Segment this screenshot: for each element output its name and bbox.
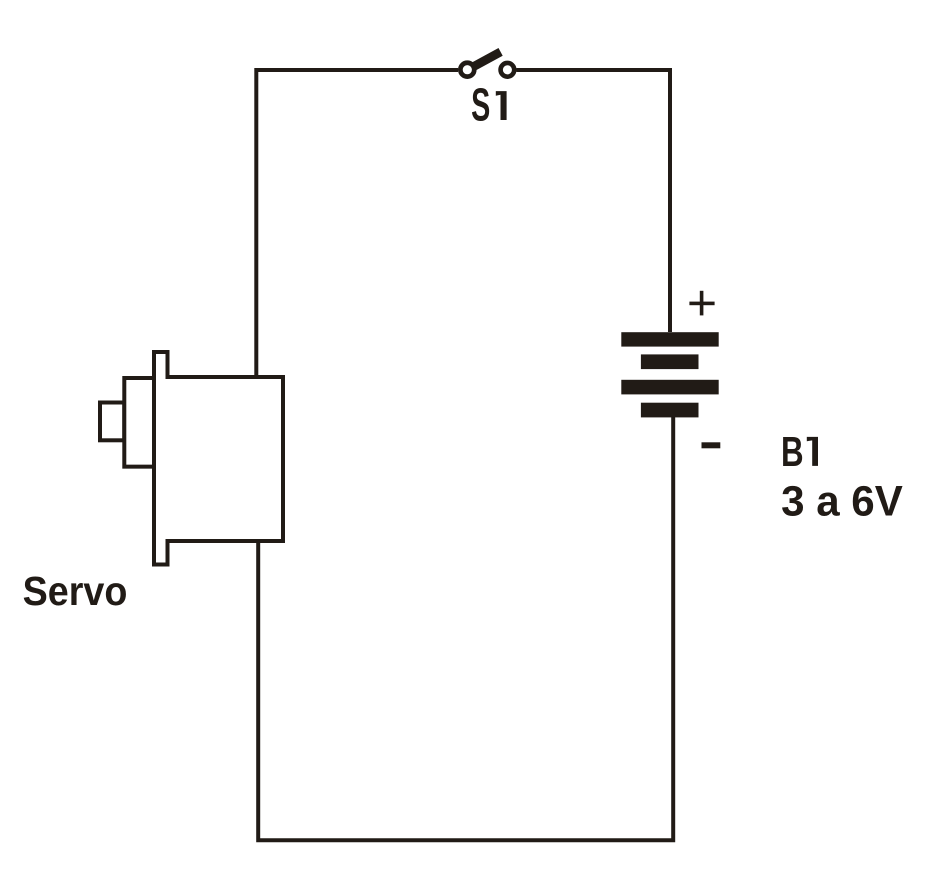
svg-text:B: B (781, 428, 804, 475)
svg-text:3 a 6V: 3 a 6V (781, 478, 903, 526)
svg-text:Servo: Servo (23, 568, 128, 614)
svg-text:S: S (471, 78, 490, 130)
